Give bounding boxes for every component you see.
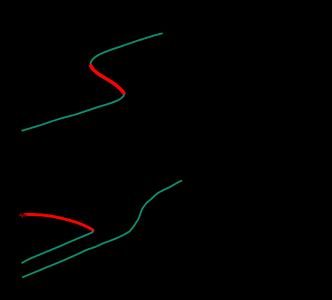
marker: dark-red zigzag tip at left end of bottom red branch: [19, 214, 27, 217]
curve: top diagram upper stable branch (teal): [90, 33, 162, 64]
curve: top diagram lower stable branch (teal): [22, 94, 125, 131]
curve: bottom diagram unstable fold branch (red): [26, 214, 94, 231]
curve: bottom diagram sigmoid solution branch (teal): [22, 181, 182, 278]
curve: top diagram unstable middle branch (red): [90, 64, 124, 94]
curve: bottom diagram fold lower branch (teal): [22, 231, 94, 263]
